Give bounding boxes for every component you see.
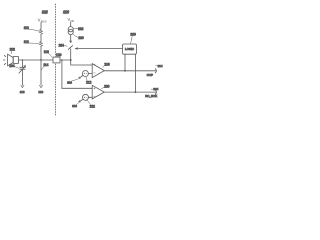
- label 102: [42, 10, 48, 14]
- boundary dashed line between MEMS die 102 and ASIC 100: [55, 4, 57, 115]
- output terminal arc 224: [155, 90, 156, 94]
- svg-text:204: 204: [9, 64, 15, 68]
- svg-text:113: 113: [20, 90, 25, 94]
- label 214: [155, 64, 163, 68]
- ground arrow at ref 212: [79, 76, 83, 79]
- bond pad 116: [53, 57, 60, 63]
- label 112: [24, 40, 40, 44]
- label 212: [86, 77, 92, 85]
- svg-text:222: 222: [90, 104, 96, 108]
- svg-text:113: 113: [67, 81, 72, 85]
- svg-text:230: 230: [78, 36, 84, 40]
- label 113 (ref 212 ground): [67, 79, 78, 84]
- svg-text:OVP: OVP: [147, 73, 153, 77]
- svg-text:120: 120: [56, 53, 62, 57]
- svg-text:216: 216: [104, 62, 110, 66]
- bias line middle: [40, 34, 42, 41]
- sound waves: [3, 55, 5, 64]
- ground arrow at ref 222: [79, 99, 83, 102]
- switch 234 blade: [68, 46, 72, 50]
- wire VDD to current source: [70, 22, 72, 27]
- svg-text:RO_NOK: RO_NOK: [145, 94, 157, 98]
- svg-text:110: 110: [24, 26, 29, 30]
- current source 230/232 (two overlapping circles): [68, 27, 73, 35]
- junction dot bias/node: [40, 59, 42, 61]
- svg-text:214: 214: [158, 64, 163, 68]
- junction dot: switch column: [70, 59, 72, 61]
- output terminal arc 214: [155, 69, 156, 73]
- logic output 1 to OVP line: [124, 54, 126, 71]
- ground arrow 113 (left): [20, 85, 25, 94]
- control arrow from logic to switch: [75, 48, 122, 50]
- ground arrow 113 (bias line): [38, 85, 43, 94]
- label 114: [41, 63, 48, 70]
- bias line to node and down to ground: [40, 46, 42, 85]
- svg-text:260: 260: [130, 32, 136, 36]
- label 110: [24, 26, 40, 31]
- label 224: [151, 87, 159, 91]
- junction dot: branch to comparator 2: [61, 59, 63, 61]
- comparator 220: [92, 85, 104, 99]
- reference source 212 (circle with +/-): [82, 71, 88, 77]
- resistor 112: [40, 41, 43, 46]
- label 234: [59, 43, 68, 47]
- svg-text:113: 113: [38, 90, 43, 94]
- svg-text:232: 232: [78, 27, 84, 31]
- LOGIC box 260: [123, 44, 137, 54]
- svg-text:102: 102: [42, 10, 48, 14]
- wire: mic node from transducer to pad: [18, 59, 53, 61]
- svg-text:224: 224: [153, 87, 158, 91]
- MEMS variable capacitor 204: [19, 60, 26, 73]
- svg-text:220: 220: [104, 84, 110, 88]
- svg-text:100: 100: [63, 10, 69, 14]
- comparator 216: [92, 64, 104, 78]
- reference source 222 (circle with +/-): [83, 94, 89, 100]
- label 202: [10, 47, 16, 53]
- bias line top: [40, 23, 42, 30]
- svg-text:LOGIC: LOGIC: [125, 47, 134, 51]
- label 222: [87, 100, 95, 108]
- acoustic port / speaker symbol: [8, 54, 19, 66]
- VDD label: [68, 17, 75, 23]
- svg-text:113: 113: [72, 104, 77, 108]
- junction: cap branch: [22, 59, 23, 60]
- label 204: [9, 64, 18, 68]
- output wire RO_NOK: [104, 91, 156, 93]
- svg-text:234: 234: [59, 43, 65, 47]
- wire: switch to node junction: [71, 49, 93, 65]
- svg-text:202: 202: [10, 47, 16, 51]
- label 232: [73, 27, 83, 31]
- wire: ref 222 to comparator: [89, 96, 93, 98]
- label 113 (ref 222 ground): [72, 103, 78, 108]
- wire: cap to ground: [21, 69, 23, 85]
- wire: node to comparator 2 input: [62, 60, 92, 88]
- label 230: [73, 34, 84, 40]
- output wire OVP: [104, 70, 156, 72]
- label 216: [103, 62, 110, 67]
- logic output 2 to RO_NOK line: [134, 54, 136, 92]
- Vbias label: [38, 18, 47, 24]
- svg-text:112: 112: [24, 40, 29, 44]
- label 100: [63, 10, 69, 14]
- label 116: [44, 50, 52, 57]
- svg-text:BIAS: BIAS: [41, 20, 47, 23]
- label 220: [102, 84, 110, 88]
- label 260: [130, 32, 136, 43]
- wire: pad to switch junction: [60, 59, 71, 61]
- svg-text:DD: DD: [71, 20, 75, 23]
- svg-text:212: 212: [86, 81, 92, 85]
- resistor 110: [40, 29, 43, 34]
- wire: ref 212 to comparator: [88, 73, 92, 75]
- wire with current direction arrow: [70, 35, 72, 43]
